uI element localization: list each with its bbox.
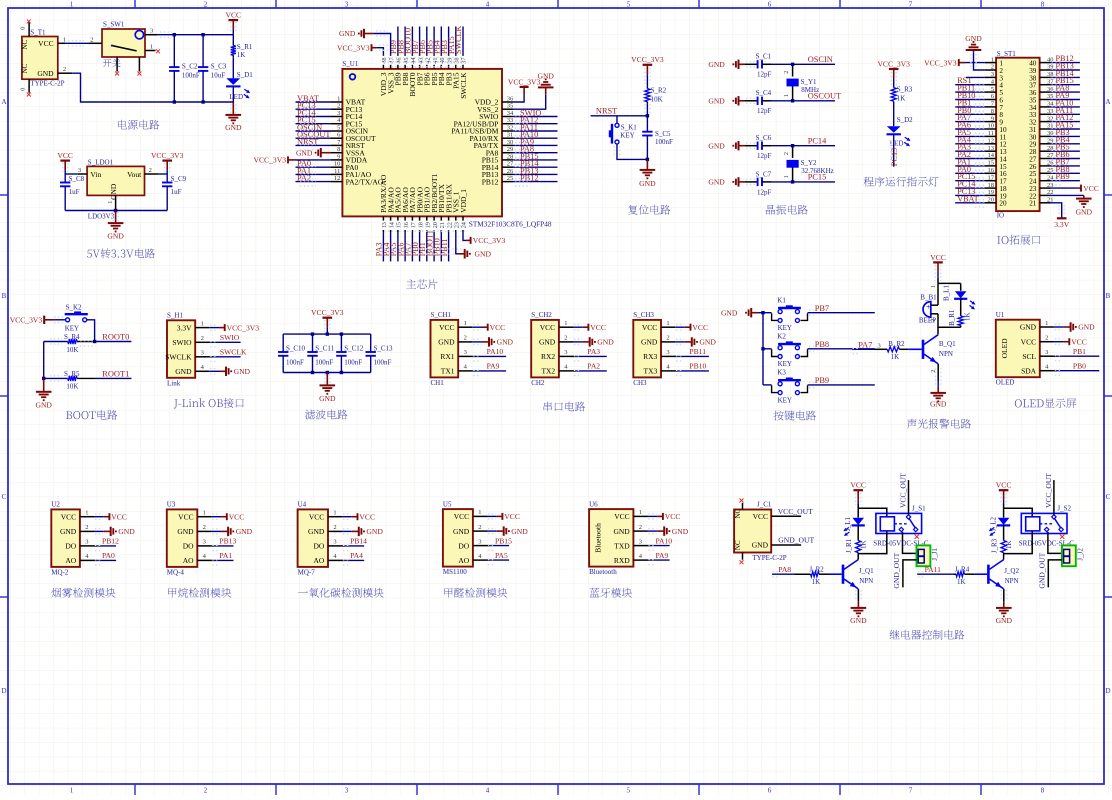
svg-text:10: 10 — [988, 123, 995, 130]
pin 37 of ST1 right — [1040, 84, 1051, 86]
svg-text:1: 1 — [203, 510, 206, 517]
svg-text:S_D1: S_D1 — [237, 71, 253, 79]
ground GND relay 2 — [1003, 601, 1005, 608]
pin 13 of U1 bottom — [382, 216, 384, 232]
svg-text:3: 3 — [1045, 349, 1048, 356]
svg-text:PA10: PA10 — [656, 536, 673, 545]
pin 31 of U1 right — [502, 137, 513, 139]
svg-text:J_R4: J_R4 — [955, 565, 970, 573]
pin 3 of U1 — [331, 116, 342, 118]
pin 20 of U1 bottom — [433, 216, 435, 232]
ground GND for C4 — [738, 96, 740, 105]
wire and power VCC — [648, 515, 658, 517]
wire net PB6 top — [426, 27, 428, 55]
pin 3 of S_H1 — [195, 356, 209, 358]
wire net SWIO right — [513, 116, 557, 118]
svg-text:2: 2 — [783, 71, 790, 74]
vertical boot gnd rail — [43, 342, 45, 379]
svg-text:PB10: PB10 — [689, 362, 706, 371]
pin 19 of U1 bottom — [426, 216, 428, 232]
pin 3 of S_CH2 — [559, 355, 573, 357]
svg-text:CH1: CH1 — [431, 379, 445, 387]
pin 3 of ST1 — [985, 76, 996, 78]
capacitor C5 — [646, 116, 648, 132]
svg-text:S_K1: S_K1 — [621, 123, 637, 131]
svg-text:NPN: NPN — [1005, 577, 1019, 585]
pin 6 of ST1 — [985, 99, 996, 101]
svg-text:11: 11 — [988, 130, 994, 137]
svg-text:J_L1: J_L1 — [844, 517, 852, 532]
svg-text:PB13: PB13 — [219, 537, 236, 546]
wire net PB13 — [211, 545, 214, 547]
pin 10 of ST1 — [985, 128, 996, 130]
title OLED显示屏 — [1015, 398, 1076, 408]
svg-text:S_Y1: S_Y1 — [801, 78, 817, 86]
wire net PA0 — [94, 559, 97, 561]
power VCC_3V3 at U1 pin36 VDD_2 — [513, 95, 524, 103]
svg-text:B: B — [1106, 292, 1111, 300]
wire net PB14 right — [513, 166, 557, 168]
svg-text:29: 29 — [507, 146, 514, 153]
svg-text:LDO3V3: LDO3V3 — [88, 212, 115, 220]
svg-text:PA0: PA0 — [102, 551, 115, 560]
power port VCC alarm — [933, 261, 943, 263]
wire J_Q1 emitter to gnd — [857, 589, 859, 602]
svg-text:MQ-7: MQ-7 — [298, 568, 316, 576]
svg-text:PA10: PA10 — [487, 347, 504, 356]
svg-text:DO: DO — [458, 541, 469, 550]
bottom rail wire — [174, 101, 233, 103]
svg-text:PB9: PB9 — [815, 376, 829, 385]
svg-text:1: 1 — [666, 320, 669, 327]
svg-text:B_R1: B_R1 — [948, 309, 956, 326]
resistor R5 — [44, 377, 68, 379]
wire net BOOT1 bottom — [433, 233, 435, 262]
wire net PA5 bottom — [397, 233, 399, 262]
svg-text:100nF: 100nF — [374, 359, 392, 367]
svg-text:8MHz: 8MHz — [801, 86, 819, 94]
svg-text:PA2/TX/AO: PA2/TX/AO — [346, 177, 384, 186]
wire net PA10 — [648, 545, 651, 547]
pin 21 of U1 bottom — [440, 216, 442, 232]
wire net PB14 st1 — [1051, 76, 1080, 78]
svg-text:0: 0 — [20, 27, 27, 30]
pin 3 of S_CH1 — [458, 355, 472, 357]
pin 35 of ST1 right — [1040, 99, 1051, 101]
pin 21 of ST1 right — [1040, 202, 1051, 204]
pin top J_C1 — [742, 503, 744, 510]
svg-text:GND: GND — [37, 69, 54, 78]
svg-text:1: 1 — [991, 56, 994, 63]
svg-text:VCC: VCC — [309, 512, 324, 521]
svg-text:2: 2 — [783, 152, 790, 155]
title 烟雾检测模块 — [51, 588, 115, 598]
module S_CH3 body — [633, 320, 661, 378]
pin 2 of U2 — [80, 530, 94, 532]
svg-text:GND: GND — [225, 123, 242, 132]
pin 2 of T1 — [58, 72, 72, 74]
ground GND for C1 — [738, 60, 740, 69]
svg-text:U5: U5 — [443, 500, 452, 508]
wire net PA4 st1 — [955, 143, 985, 145]
svg-text:1K: 1K — [859, 540, 867, 549]
pin 8 of U1 — [331, 152, 342, 154]
svg-text:2: 2 — [333, 524, 336, 531]
svg-text:19: 19 — [988, 189, 995, 196]
svg-text:Vout: Vout — [127, 170, 142, 179]
svg-text:20: 20 — [432, 222, 439, 228]
title 一氧化碳检测模块 — [298, 588, 383, 598]
svg-text:2: 2 — [464, 335, 467, 342]
pin 27 of ST1 right — [1040, 158, 1051, 160]
wire net PB4 st1 — [1051, 143, 1080, 145]
svg-text:J_J2: J_J2 — [1076, 548, 1084, 561]
pin 24 of U1 bottom — [462, 216, 464, 232]
svg-text:J_C1: J_C1 — [757, 501, 772, 509]
svg-text:3: 3 — [991, 71, 994, 78]
svg-text:1K: 1K — [891, 353, 900, 361]
svg-text:GND: GND — [537, 71, 554, 80]
pin 4 of S_CH1 — [458, 370, 472, 372]
svg-text:IO: IO — [997, 211, 1004, 219]
wire vout to C9 — [158, 173, 167, 175]
svg-text:2: 2 — [478, 524, 481, 531]
ground at ST1 pin22 — [1051, 194, 1084, 196]
pin 32 of ST1 right — [1040, 121, 1051, 123]
svg-text:GND: GND — [639, 179, 656, 188]
pin 14 of U1 bottom — [390, 216, 392, 232]
wire and ground GND — [472, 341, 482, 343]
svg-text:SWCLK: SWCLK — [454, 26, 463, 54]
wire and power VCC — [573, 326, 583, 328]
power port VCC_3V3 ldo out — [162, 160, 172, 162]
pin 22 of U1 bottom — [448, 216, 450, 232]
junction collector node — [1004, 531, 1033, 554]
title IO拓展口 — [997, 235, 1040, 245]
svg-text:DO: DO — [183, 542, 194, 551]
svg-text:35: 35 — [507, 103, 514, 110]
svg-text:1: 1 — [478, 509, 481, 516]
svg-text:1: 1 — [70, 787, 74, 795]
svg-text:+: + — [926, 303, 931, 312]
svg-text:KEY: KEY — [778, 324, 792, 332]
green connector J_J1 — [917, 545, 931, 566]
pin 12 of U1 — [331, 181, 342, 183]
wire net PB15 right — [513, 159, 557, 161]
svg-text:D: D — [1105, 687, 1110, 695]
LED J_L1 — [857, 508, 859, 517]
wire net PA2 st1 — [955, 158, 985, 160]
svg-text:D: D — [1, 687, 6, 695]
svg-text:5: 5 — [627, 1, 631, 9]
svg-text:VDD_1: VDD_1 — [459, 189, 468, 213]
svg-text:OLED: OLED — [1000, 338, 1009, 359]
ground GND for C6 — [738, 141, 740, 150]
svg-text:10K: 10K — [66, 383, 78, 391]
svg-text:1K: 1K — [964, 312, 972, 321]
power port VCC ldo — [60, 160, 70, 162]
capacitor C10 — [282, 334, 284, 352]
resistor R1 — [232, 35, 234, 44]
wire net PB8 — [808, 348, 875, 350]
svg-text:GND: GND — [1076, 208, 1093, 217]
svg-text:1: 1 — [1045, 320, 1048, 327]
wire net PB10 — [675, 370, 678, 372]
svg-text:1: 1 — [63, 37, 66, 44]
svg-text:GND: GND — [511, 527, 528, 536]
wire net PA11 st1 — [1051, 113, 1080, 115]
pin 27 of U1 right — [502, 166, 513, 168]
wire net PB8 st1 — [1051, 172, 1080, 174]
pin 4 of S_CH2 — [559, 370, 573, 372]
pin 4 of U5 — [473, 559, 487, 561]
svg-text:SCL: SCL — [1022, 352, 1036, 361]
resistor R2 — [646, 87, 648, 89]
svg-text:S_D2: S_D2 — [897, 116, 913, 124]
title 程序运行指示灯 — [864, 177, 939, 187]
svg-text:33: 33 — [507, 117, 514, 124]
pin 26 of ST1 right — [1040, 165, 1051, 167]
svg-text:B_B1: B_B1 — [920, 294, 937, 302]
wire net PB1 — [1054, 355, 1057, 357]
svg-text:23: 23 — [454, 222, 461, 228]
pin 25 of ST1 right — [1040, 172, 1051, 174]
svg-text:TX2: TX2 — [541, 367, 555, 376]
svg-text:S_C8: S_C8 — [69, 175, 85, 183]
svg-text:3.3V: 3.3V — [177, 323, 192, 332]
ground at U1 top VSS_3 — [373, 34, 390, 55]
regulator LDO1 — [87, 166, 144, 195]
svg-text:PB11: PB11 — [689, 347, 706, 356]
module U4 body — [298, 509, 328, 567]
wire net PB3 top — [448, 27, 450, 55]
capacitor C8 — [64, 174, 66, 183]
svg-text:12pF: 12pF — [757, 188, 772, 196]
wire NRST — [646, 104, 648, 116]
title 晶振电路 — [766, 205, 808, 215]
pin 4 of U2 — [80, 559, 94, 561]
svg-text:3: 3 — [345, 787, 349, 795]
pin 16 of ST1 — [985, 172, 996, 174]
wire net PA8 st1 — [1051, 91, 1080, 93]
pin 1 of U1 — [331, 101, 342, 103]
svg-text:12: 12 — [334, 175, 341, 182]
svg-text:J_Q2: J_Q2 — [1004, 567, 1019, 575]
pin 47 of U1 top — [390, 54, 392, 69]
filter top rail — [283, 333, 371, 335]
svg-text:28: 28 — [507, 153, 514, 160]
pin 3 of U1 — [1040, 355, 1054, 357]
svg-text:GND: GND — [109, 183, 118, 200]
svg-text:J_R3: J_R3 — [991, 538, 999, 553]
svg-text:PA1: PA1 — [219, 551, 232, 560]
pin 1 of LDO1 — [115, 195, 117, 210]
svg-text:31: 31 — [507, 132, 514, 139]
svg-text:1K: 1K — [1005, 540, 1013, 549]
crystal Y1 — [792, 64, 794, 76]
svg-text:34: 34 — [507, 110, 514, 117]
svg-text:GND: GND — [319, 394, 336, 403]
svg-text:AO: AO — [183, 556, 194, 565]
LED D2 — [887, 126, 901, 133]
svg-text:10: 10 — [334, 161, 341, 168]
svg-text:VCC: VCC — [614, 512, 629, 521]
module U5 body — [443, 509, 473, 566]
svg-text:TYPE-C-2P: TYPE-C-2P — [30, 80, 64, 88]
pin 5 of U1 — [331, 130, 342, 132]
svg-text:BEEP: BEEP — [919, 316, 936, 324]
pin 10 of U1 — [331, 166, 342, 168]
wire net SWIO — [209, 341, 212, 343]
pin 29 of ST1 right — [1040, 143, 1051, 145]
pin 32 of U1 right — [502, 130, 513, 132]
svg-text:VCC_3V3: VCC_3V3 — [473, 236, 506, 245]
svg-text:GND: GND — [60, 527, 77, 536]
wire net PA1 — [211, 559, 214, 561]
svg-text:PA5: PA5 — [495, 551, 508, 560]
svg-text:2: 2 — [1045, 335, 1048, 342]
svg-text:TX3: TX3 — [644, 367, 658, 376]
svg-text:9: 9 — [337, 153, 340, 160]
svg-text:S_C1: S_C1 — [756, 53, 772, 61]
wire net PB12 right — [513, 181, 557, 183]
svg-text:PA8: PA8 — [778, 565, 791, 574]
power VCC_3V3 at U1 top VDD_3 — [376, 48, 383, 55]
svg-text:S_CH1: S_CH1 — [431, 311, 452, 319]
svg-text:GND: GND — [752, 541, 769, 550]
svg-text:VCC_OUT: VCC_OUT — [1044, 473, 1053, 508]
capacitor C1 — [745, 63, 758, 65]
pin 7 of U1 — [331, 144, 342, 146]
pin 36 of U1 right — [502, 101, 513, 103]
svg-text:K3: K3 — [777, 369, 786, 377]
svg-text:VCC: VCC — [665, 512, 681, 521]
wire net PA15 st1 — [1051, 128, 1080, 130]
resistor J_R3 — [1003, 525, 1005, 540]
wire vcc tee to relay coil — [858, 508, 887, 517]
svg-text:1: 1 — [783, 175, 790, 178]
svg-text:22: 22 — [446, 222, 453, 228]
pin 2 of LDO1 — [145, 173, 159, 175]
svg-text:VCC: VCC — [642, 323, 657, 332]
wire net PC13 st1 — [955, 194, 985, 196]
svg-text:3.3V: 3.3V — [1054, 220, 1069, 229]
svg-text:GND: GND — [996, 616, 1013, 625]
svg-text:17: 17 — [410, 222, 417, 228]
wire net PB9 — [808, 384, 875, 386]
wire net BOOT0 top — [411, 27, 413, 55]
wire net PB12 — [94, 545, 97, 547]
wire net PB10 bottom — [440, 233, 442, 262]
svg-text:GND: GND — [308, 527, 325, 536]
svg-text:8: 8 — [1041, 787, 1045, 795]
svg-text:S_C3: S_C3 — [211, 62, 227, 70]
pin 0 bottom of T1 — [28, 79, 30, 93]
svg-text:1uF: 1uF — [69, 188, 80, 196]
wire net PB11 bottom — [448, 233, 450, 262]
pin 14 of ST1 — [985, 158, 996, 160]
svg-text:GND: GND — [965, 34, 982, 43]
svg-text:VCC: VCC — [692, 323, 708, 332]
wire and ground GND — [487, 530, 497, 532]
wire net PA12 right — [513, 123, 557, 125]
pin 37 of U1 top — [462, 54, 464, 69]
ground GND ldo — [115, 211, 117, 224]
svg-text:VCC: VCC — [996, 481, 1012, 490]
wire pin3 st1 — [966, 76, 985, 78]
svg-text:18: 18 — [417, 222, 424, 228]
pin 3 of S_CH3 — [661, 355, 675, 357]
svg-text:A: A — [1, 98, 6, 106]
svg-text:DO: DO — [313, 542, 324, 551]
svg-text:100nF: 100nF — [344, 359, 362, 367]
svg-text:3: 3 — [150, 28, 153, 35]
svg-text:2: 2 — [991, 64, 994, 71]
relay J_S1 body — [876, 513, 922, 533]
svg-text:15: 15 — [396, 222, 403, 228]
svg-text:1uF: 1uF — [171, 188, 182, 196]
wire net VCC_OUT — [771, 515, 801, 517]
svg-text:VCC: VCC — [439, 323, 454, 332]
pin 2 of U6 — [633, 530, 647, 532]
title 甲醛检测模块 — [444, 588, 507, 598]
svg-text:U3: U3 — [167, 501, 176, 509]
svg-text:6: 6 — [768, 1, 772, 9]
wire net VCC_OUT relay 1 — [908, 480, 910, 515]
svg-text:21: 21 — [1029, 200, 1037, 208]
wire net VCC_OUT relay 2 — [1053, 480, 1055, 515]
wire net PB5 top — [433, 27, 435, 55]
svg-text:VCC_3V3: VCC_3V3 — [337, 43, 370, 52]
pin 15 of ST1 — [985, 165, 996, 167]
wire net PB0 st1 — [955, 113, 985, 115]
svg-text:3: 3 — [464, 349, 467, 356]
capacitor C12 — [340, 334, 342, 352]
wire net PA5 — [487, 559, 490, 561]
title J-Link OB接口 — [174, 398, 244, 409]
wire and power VCC — [342, 516, 352, 518]
resistor J_R4 base — [953, 573, 956, 575]
svg-text:GND: GND — [672, 527, 689, 536]
svg-text:PA9: PA9 — [487, 362, 500, 371]
svg-text:VCC_3V3: VCC_3V3 — [311, 308, 344, 317]
pin 33 of U1 right — [502, 123, 513, 125]
resistor J_R2 base — [795, 573, 811, 575]
ground GND filter — [326, 373, 328, 386]
svg-text:J_L2: J_L2 — [989, 517, 997, 532]
svg-text:3: 3 — [78, 167, 81, 174]
svg-text:SDA: SDA — [1021, 366, 1037, 375]
module S_CH2 body — [531, 320, 559, 378]
wire net PA11 right — [513, 130, 557, 132]
svg-text:5: 5 — [337, 125, 340, 132]
svg-text:S_C4: S_C4 — [756, 89, 772, 97]
capacitor C6 — [745, 145, 758, 147]
wire net PA6 bottom — [404, 233, 406, 262]
pin 22 of ST1 right — [1040, 194, 1051, 196]
svg-text:0: 0 — [20, 88, 27, 91]
pin 40 of ST1 right — [1040, 62, 1051, 64]
svg-text:SWIO: SWIO — [172, 338, 192, 347]
svg-text:ROOT0: ROOT0 — [102, 332, 129, 341]
svg-text:GND: GND — [339, 29, 356, 38]
wire net PA11 — [917, 573, 953, 575]
wire and ground GND — [675, 341, 685, 343]
ground GND boot — [43, 378, 45, 391]
svg-text:KEY: KEY — [65, 325, 79, 333]
title 主芯片 — [406, 279, 437, 289]
svg-text:S_C10: S_C10 — [286, 344, 306, 352]
